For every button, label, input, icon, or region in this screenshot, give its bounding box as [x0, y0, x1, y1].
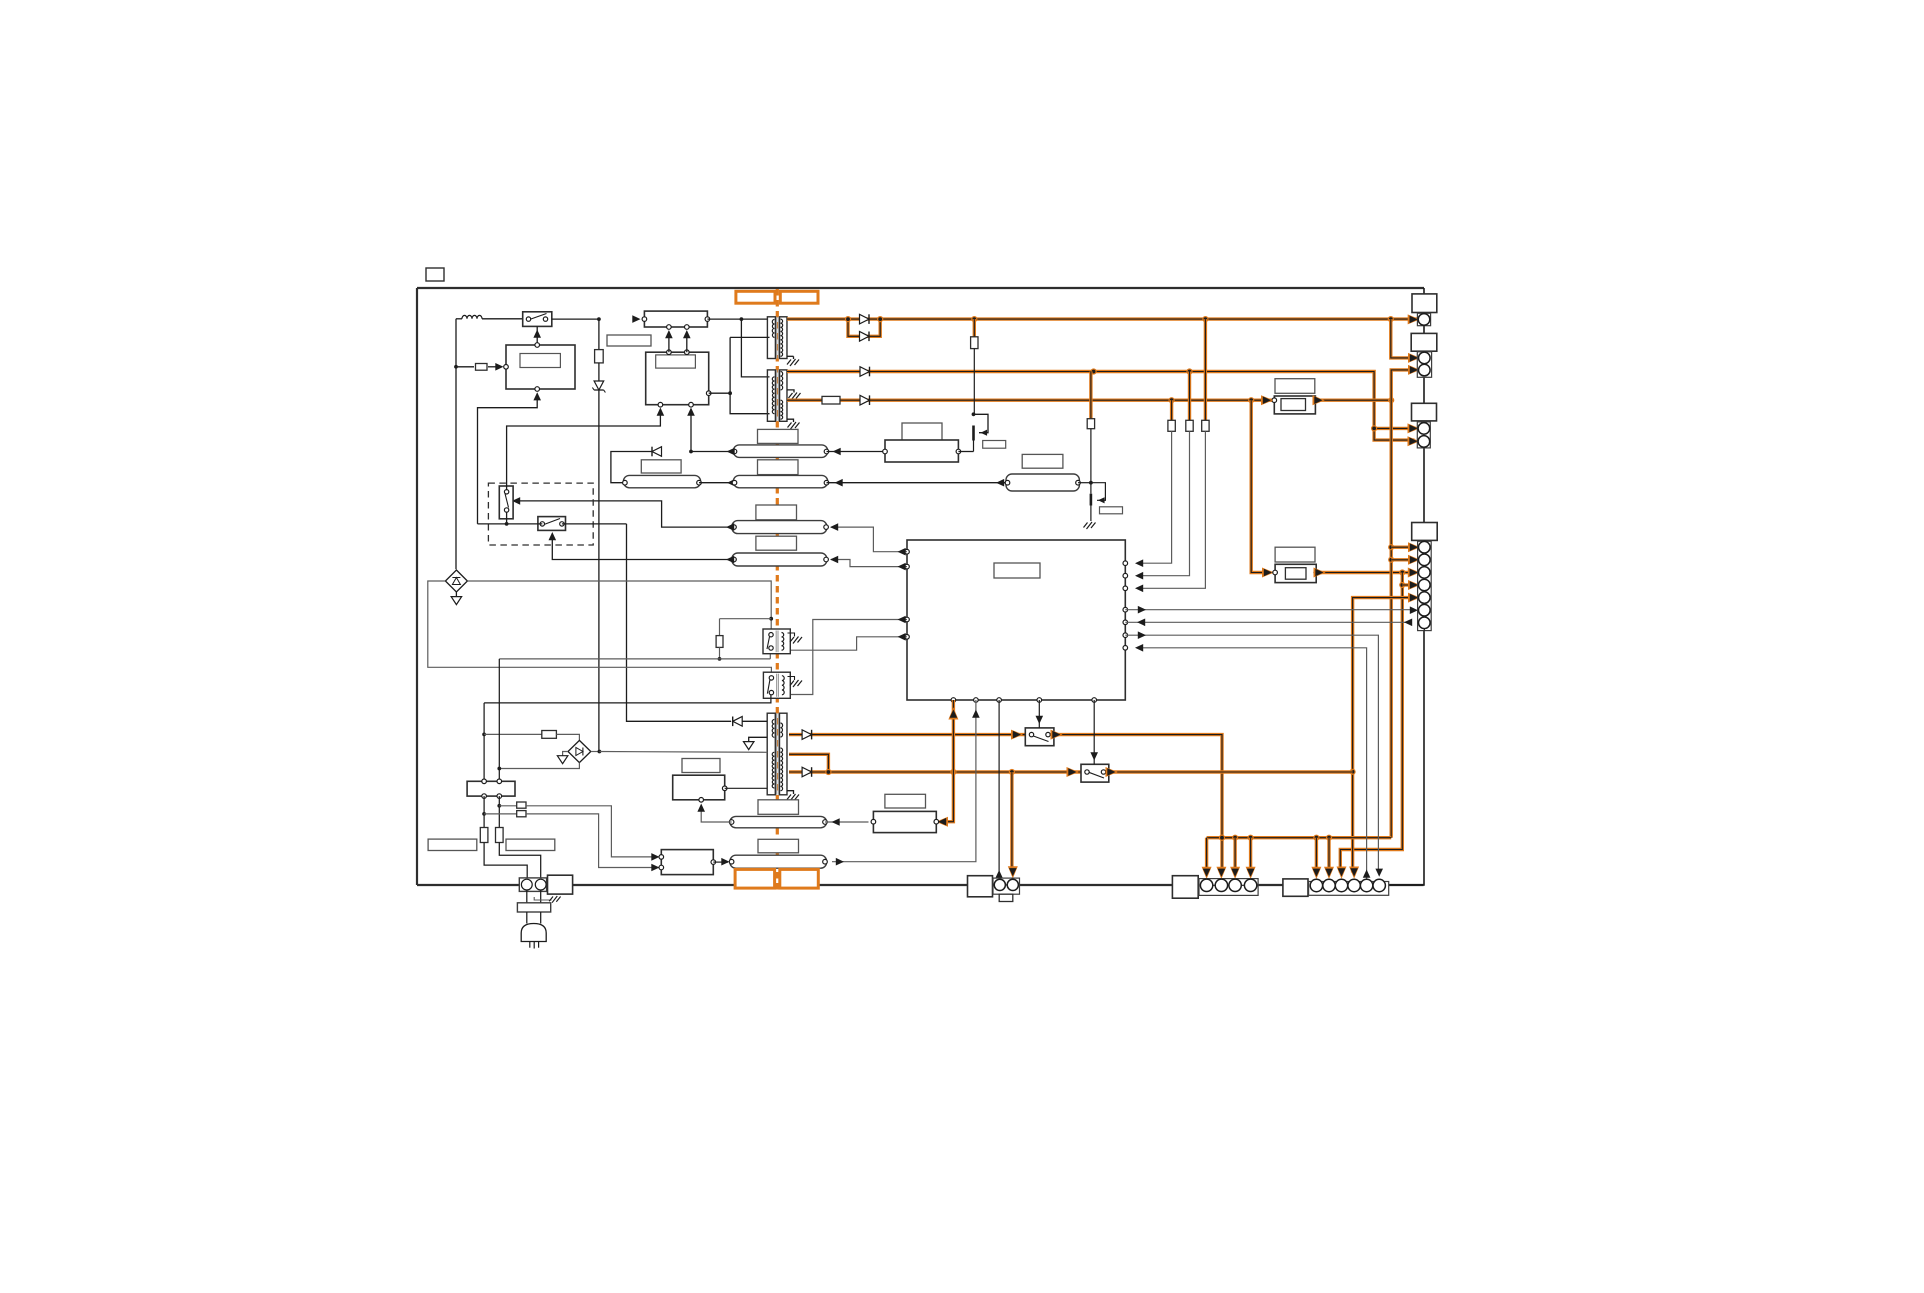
bus bar B2L	[623, 475, 702, 487]
rail V2 main	[787, 368, 1420, 446]
dropper from V3 via R13	[1135, 400, 1175, 567]
dropper from V1 via R11	[1135, 319, 1209, 592]
ic IC5 left pins	[905, 549, 910, 639]
wire IC5 to bus B4	[830, 556, 907, 571]
wire to CN4 pin4	[1402, 580, 1420, 590]
bus bar B1	[732, 445, 829, 458]
label opto bus1	[641, 460, 681, 473]
wire D8 bottom	[499, 763, 579, 769]
box U6 photo	[659, 850, 716, 875]
orange top box R	[780, 291, 818, 303]
selector switch SW1	[499, 486, 513, 519]
diode D6	[802, 730, 812, 740]
box B2 error amp	[871, 811, 938, 832]
resistor Ra	[480, 796, 527, 878]
ground T2 secondary a	[787, 390, 801, 401]
orange link box L	[735, 869, 775, 888]
rail V1 main	[787, 314, 1420, 324]
connector CN3	[1412, 403, 1437, 448]
wire Z1 left loop	[428, 581, 772, 674]
label bus B6	[758, 800, 799, 815]
connector CN1	[1412, 294, 1437, 326]
wire T1 primary tap	[730, 319, 769, 414]
ic IC5 right pins	[1123, 561, 1128, 650]
wire H2 to CN7 pin1	[1311, 838, 1321, 879]
wire L2v	[497, 659, 501, 781]
box U5 drive	[673, 775, 727, 802]
wire B1 right to U4	[827, 448, 886, 456]
wire selector bus	[478, 523, 627, 525]
wire B1 feedback	[611, 447, 735, 483]
wire T3 tap to chassis	[743, 737, 767, 749]
bus bar B4	[732, 553, 829, 566]
wire B4 to SW2	[549, 532, 735, 563]
resistor R1	[456, 363, 504, 371]
ac plug	[521, 924, 546, 949]
resistor R2	[716, 619, 771, 661]
connector CN6 middle	[968, 876, 1020, 902]
wire H2 to CN6a pin4	[1246, 838, 1256, 879]
wire B2C to B5bar	[827, 479, 1008, 487]
zener diode D3	[592, 381, 605, 752]
fuse F1	[484, 731, 579, 741]
wire Z1 right	[467, 581, 773, 631]
ic IC5 bottom pins	[951, 698, 1096, 703]
distribution box U2	[642, 311, 710, 329]
wire V2b to CN4 pin5	[1353, 593, 1421, 772]
net B+ dashed highlight line	[776, 289, 779, 891]
fuse F3	[822, 396, 840, 404]
wire to CN4 pin1	[1391, 542, 1420, 552]
transformer T2	[767, 370, 787, 421]
inductor L1	[456, 315, 523, 318]
label Q2	[1100, 507, 1123, 514]
resistor Rb	[496, 796, 541, 878]
wire IC5 to relay RY1 coil	[791, 633, 907, 650]
surge absorber Z1	[445, 570, 467, 592]
label osc box	[682, 759, 720, 773]
wire IC7 bus down	[1337, 573, 1406, 879]
wire SW1 to selbus	[505, 512, 509, 526]
label CN0	[548, 875, 573, 894]
rectifier D8	[568, 740, 591, 762]
ground ac	[534, 896, 560, 904]
wire V1 to CN2 pin1	[1391, 319, 1420, 363]
ac inlet connector CN0	[519, 878, 546, 892]
label B2	[885, 794, 926, 808]
regulator IC7	[1273, 547, 1319, 582]
wire L1v	[482, 703, 486, 781]
wire to CN4 pin2	[1391, 555, 1420, 565]
label T3	[758, 429, 799, 443]
connector CN6a	[1172, 876, 1258, 899]
ac plug wiring	[517, 890, 550, 924]
wire H2 to CN7 pin2	[1324, 838, 1334, 879]
label bus5	[1022, 454, 1063, 468]
label bus4	[756, 536, 797, 550]
switch S3	[1067, 764, 1118, 782]
wire V3 to IC7	[1251, 400, 1274, 577]
wire B2L to B2C	[699, 479, 735, 487]
relay switch S1	[523, 312, 552, 327]
wire V2b to CN6 pin2	[1008, 772, 1018, 879]
wire right column link	[1389, 288, 1424, 885]
chassis ground Z1	[451, 592, 462, 605]
diode D1	[860, 314, 870, 324]
wire U6 to B7bar	[713, 858, 729, 866]
wire mains L	[454, 319, 458, 570]
wire U4 to Q1	[958, 451, 973, 453]
wire SW1 to U3	[507, 408, 665, 490]
wire CN7 pin5 to IC5	[1135, 644, 1370, 879]
label mains	[607, 335, 651, 346]
wire B6 to B2	[825, 818, 869, 826]
wire IC5 drive to B2	[936, 700, 959, 827]
label bus B7	[758, 839, 799, 853]
ground T3 secondary	[787, 791, 799, 803]
wire fb to U3	[687, 408, 695, 452]
wire V2b to CN7 pin4	[1349, 769, 1359, 879]
wire H2 to CN6a pin3	[1230, 838, 1240, 879]
wire B5 to Q2	[1078, 481, 1093, 485]
orange link box R	[780, 869, 819, 888]
wire selector to T3 tap	[627, 524, 768, 726]
ground T1 secondary	[787, 356, 799, 367]
ground Q2	[1084, 522, 1096, 531]
wire U2 to T1 primary	[707, 317, 767, 321]
wire U3 to U2 a	[665, 330, 673, 352]
connector CN2	[1411, 333, 1437, 377]
bus bar B6bar	[729, 816, 827, 827]
bus bar B7bar	[729, 855, 827, 868]
capacitor Cb line	[484, 811, 659, 872]
label noise filter	[428, 839, 477, 850]
wire CN6 to IC5	[995, 700, 1003, 879]
rail V3 main	[787, 397, 1394, 403]
dropper from V2 via R12	[1135, 372, 1193, 580]
schematic outer border	[417, 288, 1424, 885]
wire T3 to S2 rail	[789, 735, 1226, 879]
box U4	[883, 440, 961, 462]
connector CN7	[1283, 879, 1389, 896]
chassis ground D8	[557, 752, 568, 764]
ground RY1	[788, 633, 803, 645]
page reference box	[426, 268, 444, 281]
regulator IC6	[1261, 379, 1325, 414]
label ac input	[506, 839, 555, 850]
diode D5	[860, 395, 870, 405]
orange top box L	[736, 291, 775, 303]
wire H2 to CN6a pin1	[1202, 838, 1212, 879]
wire RY2 contact return	[484, 695, 771, 703]
wire U3 right to T1 column	[709, 391, 732, 395]
ground RY2	[788, 677, 803, 689]
fuse F2 on mains line	[595, 319, 604, 380]
wire S1 to node A	[552, 315, 641, 323]
relay RY1	[763, 629, 790, 654]
bus bar B2C	[732, 475, 829, 487]
ground T2 secondary b	[787, 419, 800, 430]
transistor Q2	[1091, 483, 1106, 521]
rail V2 branch CN3a	[1371, 423, 1420, 433]
bus bar B5	[1005, 474, 1080, 491]
selector switch SW2	[538, 517, 566, 531]
diode D4	[860, 367, 870, 377]
connector CN4	[1412, 523, 1438, 631]
ic IC5 system control	[907, 540, 1125, 700]
ic U1 relay driver	[504, 343, 575, 392]
switch S2	[1011, 728, 1063, 746]
bus H2 to CN7	[1207, 835, 1392, 841]
wire R2 bus	[499, 651, 770, 659]
transformer T3	[767, 713, 787, 795]
ic U3 pwm controller	[646, 350, 711, 407]
wire U1 bottom feed	[478, 392, 542, 524]
line filter FL1	[467, 779, 515, 798]
wire IC5 to S2	[1036, 700, 1044, 728]
wire D8 out	[591, 750, 767, 754]
diode pair loop	[845, 316, 883, 341]
wire IC5 to bus B3	[830, 523, 907, 555]
wire IC7 out to CN4	[1314, 568, 1421, 578]
diode D7	[802, 767, 812, 777]
transistor Q1	[972, 412, 988, 451]
label Q1	[983, 441, 1006, 449]
voltage selector dashed box	[488, 483, 593, 545]
wire T3 mid loop	[789, 754, 828, 772]
wire IC5 to S3	[1090, 700, 1098, 764]
wire U3 to U2 b	[683, 330, 691, 352]
dropper from V1 via R10	[971, 319, 978, 414]
capacitor Ca line	[499, 802, 659, 861]
wire B6 to U5	[697, 804, 731, 823]
wire IC5 to relay RY2 coil	[791, 616, 907, 695]
label bus3	[756, 505, 797, 520]
dropper from V2 via R14	[1087, 372, 1094, 494]
label U4	[902, 423, 942, 440]
wire V3 to CN2 pin2	[1391, 365, 1420, 400]
label bus2	[758, 460, 799, 475]
wire B3 to selector	[512, 497, 734, 531]
rail V2b	[789, 769, 1353, 775]
wire U5 to T3	[725, 787, 768, 789]
wire IC5 to CN7 pin6	[1125, 631, 1383, 876]
bus bar B3	[732, 521, 829, 534]
wire CN4 pin7 to IC5	[1125, 619, 1412, 627]
relay RY2	[763, 672, 790, 698]
wire U1 to S1 coil	[533, 326, 541, 342]
transformer T1	[767, 317, 787, 359]
wire IC5 to CN4 pin6	[1125, 606, 1418, 614]
wire B7 to IC5	[832, 700, 980, 866]
wire V3 down bus	[1388, 400, 1394, 838]
